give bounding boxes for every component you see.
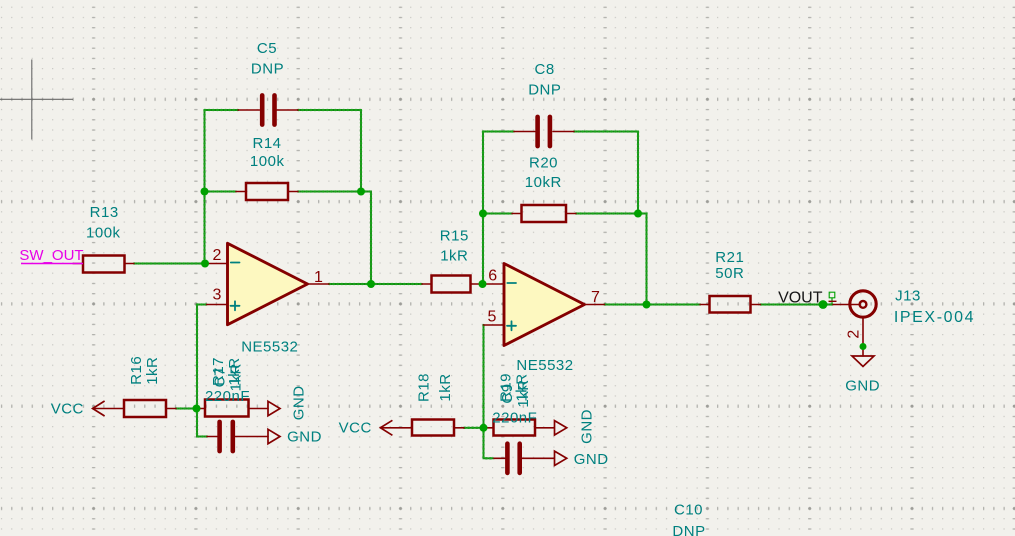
svg-text:1kR: 1kR [144, 357, 161, 385]
resistor R20 [522, 205, 567, 222]
svg-text:R16: R16 [128, 356, 145, 385]
svg-text:GND: GND [578, 409, 595, 444]
wire feedback2 jog to output node [638, 214, 647, 305]
resistor R15 [432, 276, 471, 293]
op-amp U1 pin 1 line [308, 283, 330, 285]
resistor R16 [124, 400, 166, 417]
svg-text:7: 7 [591, 289, 600, 306]
junction feedback2 left [479, 210, 487, 218]
svg-text:2: 2 [845, 330, 862, 339]
wire U1 pin3 vertical to bias node [196, 305, 198, 409]
wire output1 to R15 [371, 283, 422, 285]
wire R20 row right [576, 213, 638, 215]
svg-text:C8: C8 [535, 61, 555, 78]
op-amp U1 plus sign [231, 301, 240, 310]
svg-text:1kR: 1kR [228, 363, 245, 391]
svg-text:VCC: VCC [339, 420, 372, 437]
capacitor C5 [262, 95, 274, 124]
svg-text:10kR: 10kR [525, 174, 562, 191]
wire feedback2 left vertical [482, 132, 484, 285]
junction U1 pin2 node [201, 260, 209, 268]
op-amp U1 pin 2 line [207, 263, 228, 265]
connector J13 outer ring [850, 291, 876, 317]
svg-text:GND: GND [845, 378, 880, 395]
capacitor C9 [507, 444, 519, 473]
op-amp U1 NE5532 [228, 243, 308, 324]
junction feedback1 right [357, 188, 365, 196]
op-amp U2 pin 7 line [585, 304, 605, 306]
power symbol VCC2 arrow [380, 420, 392, 435]
R13 pin lines [73, 263, 134, 265]
power symbol GND arrow 1 [268, 401, 280, 415]
power symbol GND arrow 4 [555, 451, 567, 465]
C9 pin lines [494, 457, 554, 459]
junction bias node 1 [193, 405, 201, 413]
wire C8 row left [483, 131, 514, 133]
wire bias node down to cap C7 row [197, 409, 207, 437]
wire feedback1 right vertical upper [360, 110, 362, 192]
svg-text:GND: GND [287, 429, 322, 446]
op-amp U2 NE5532 [504, 264, 585, 346]
svg-text:100k: 100k [250, 153, 285, 170]
op-amp U2 plus sign [507, 321, 516, 330]
wire U2 output row [605, 304, 647, 306]
VCC1 feed line [93, 408, 124, 410]
svg-text:SW_OUT: SW_OUT [19, 247, 83, 264]
power symbol VCC1 arrow [93, 401, 105, 416]
svg-text:3: 3 [213, 286, 222, 303]
svg-text:1kR: 1kR [515, 379, 532, 407]
svg-text:R14: R14 [252, 135, 281, 152]
sheet origin crosshair [0, 60, 73, 140]
wire U1 output row [329, 283, 371, 285]
connector J13 center pin [860, 301, 867, 308]
unconnected end marker at VOUT [829, 292, 835, 304]
R16 right pin line [166, 408, 176, 410]
wire U2 pin5 vertical to bias node 2 [483, 325, 485, 428]
pin 1 number dash at J13 [829, 300, 837, 302]
J13 pin 2 line [862, 318, 864, 357]
svg-text:6: 6 [488, 268, 497, 285]
resistor R13 [83, 256, 125, 273]
svg-text:1kR: 1kR [437, 373, 454, 401]
svg-text:VOUT: VOUT [778, 289, 823, 306]
svg-text:2: 2 [213, 247, 222, 264]
wire R14 row left [205, 191, 237, 193]
wire VOUT node to J13 pin1 [823, 304, 833, 306]
R18 right pin line [454, 427, 464, 429]
C5 pin lines [238, 109, 298, 111]
resistor R17 [205, 400, 249, 417]
wire C8 row right [574, 131, 638, 133]
power symbol GND triangle at J13 [852, 356, 874, 367]
J13 pin 1 line [833, 304, 860, 306]
svg-text:1: 1 [314, 269, 323, 286]
junction feedback1 left [201, 188, 209, 196]
op-amp U2 pin 6 line [483, 283, 504, 285]
junction VOUT node [819, 300, 828, 309]
R15 pin lines [422, 283, 481, 285]
wire U1 pin3 stub [197, 304, 207, 306]
wire feedback2 right vertical upper [637, 132, 639, 214]
wire R20 row left [483, 213, 512, 215]
C7 pin lines [207, 436, 268, 438]
svg-text:C10: C10 [674, 501, 703, 518]
wire C5 row right [298, 109, 361, 111]
R21 pin lines [700, 304, 761, 306]
wire R21 to VOUT node [761, 304, 824, 306]
svg-text:NE5532: NE5532 [516, 357, 573, 374]
svg-text:DNP: DNP [528, 82, 561, 99]
op-amp U2 pin 5 line [484, 324, 505, 326]
junction J13 pin2 net [860, 343, 867, 350]
svg-text:R13: R13 [90, 204, 119, 221]
R19 pin lines [483, 427, 555, 429]
svg-text:220nF: 220nF [492, 410, 537, 427]
R17 pin lines [197, 408, 269, 410]
junction output2 [643, 301, 651, 309]
op-amp U2 minus sign [507, 282, 516, 284]
op-amp U1 pin 3 line [207, 304, 228, 306]
svg-text:VCC: VCC [51, 401, 84, 418]
VCC2 feed line [380, 427, 412, 429]
wire SW_OUT/R13 to op-amp U1 pin2 node [134, 263, 205, 265]
wire highlight speckle overlay [134, 110, 833, 458]
net label SW_OUT underline [21, 263, 83, 265]
resistor R18 [412, 420, 454, 436]
wire R16 to bias node [176, 408, 197, 410]
svg-text:R15: R15 [440, 227, 469, 244]
power symbol GND arrow 2 [268, 429, 280, 443]
svg-text:J13: J13 [895, 287, 921, 304]
power symbol GND arrow 3 [555, 421, 567, 435]
junction bias node 2 [480, 424, 488, 432]
resistor R19 [494, 420, 536, 436]
wire feedback1 left vertical [204, 110, 206, 264]
junction U2 pin6 node [479, 280, 487, 288]
wire feedback1 jog to output node [361, 192, 371, 285]
wire C5 row left [205, 109, 239, 111]
svg-text:5: 5 [488, 308, 497, 325]
svg-text:C9: C9 [499, 383, 516, 403]
svg-text:1kR: 1kR [440, 247, 468, 264]
wire R18 to bias node 2 [464, 427, 483, 429]
op-amp U1 minus sign [231, 262, 240, 264]
svg-text:NE5532: NE5532 [241, 339, 298, 356]
capacitor C8 [538, 117, 550, 146]
resistor R14 [246, 183, 288, 200]
svg-text:DNP: DNP [672, 523, 705, 536]
svg-text:R18: R18 [416, 373, 433, 402]
junction feedback2 right [634, 210, 642, 218]
svg-text:IPEX-004: IPEX-004 [894, 309, 975, 326]
svg-text:C7: C7 [212, 367, 229, 387]
C8 pin lines [514, 131, 574, 133]
wire output2 to R21 [647, 304, 701, 306]
capacitor C7 [220, 422, 233, 451]
svg-text:C5: C5 [257, 40, 277, 57]
R20 pin lines [512, 213, 576, 215]
svg-text:GND: GND [574, 451, 609, 468]
R14 pin lines [236, 191, 298, 193]
svg-text:50R: 50R [715, 265, 744, 282]
svg-text:DNP: DNP [251, 61, 284, 78]
wire R14 row right [298, 191, 361, 193]
svg-text:R20: R20 [529, 154, 558, 171]
svg-text:GND: GND [290, 385, 307, 420]
svg-text:R21: R21 [715, 249, 744, 266]
svg-text:100k: 100k [86, 225, 121, 242]
junction output1 [367, 280, 375, 288]
resistor R21 [710, 296, 751, 313]
wire bias node 2 down to cap C9 row [484, 428, 495, 459]
